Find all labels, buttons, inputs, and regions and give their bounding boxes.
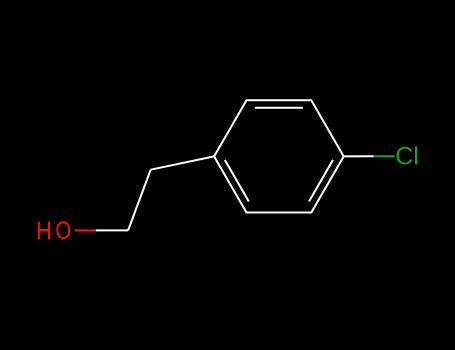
svg-text:H: H: [36, 217, 52, 245]
bond ring-Cl white half: [344, 155, 374, 157]
bond O-C1 white half: [96, 229, 128, 231]
svg-text:C: C: [395, 143, 413, 171]
svg-text:O: O: [55, 217, 71, 245]
benzene ring outline: [214, 100, 344, 212]
bond O-C1 red half: [75, 229, 96, 231]
bond ring-Cl green half: [374, 155, 395, 157]
double bond inner line top: [255, 107, 303, 109]
double bond inner line right: [309, 160, 333, 202]
bond C1-C2: [128, 170, 151, 231]
double bond inner line left: [225, 160, 249, 202]
label Cl (chlorine): l glyph: [415, 146, 417, 164]
bond C2-ring ipso: [151, 156, 214, 169]
